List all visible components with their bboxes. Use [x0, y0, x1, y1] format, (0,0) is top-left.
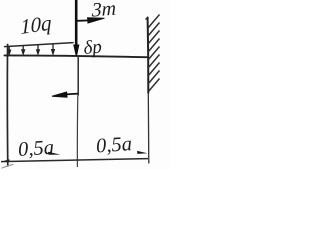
svg-text:0,5a: 0,5a [17, 137, 54, 161]
dim arrow mid [48, 152, 61, 155]
wall hatch 2 [148, 23, 160, 37]
node center vertical member [77, 57, 79, 96]
dimension line bottom [1, 159, 148, 162]
wire left vertical member [6, 45, 8, 167]
wall hatch 3 [148, 31, 160, 45]
wall top hook [146, 18, 148, 20]
wire distributed load baseline [5, 43, 74, 47]
wall hatch 7 [148, 63, 160, 77]
wall hatch 5 [148, 47, 160, 61]
load arrow 2 [22, 46, 25, 55]
wall vertical line [147, 18, 150, 94]
wire center vertical lower [76, 96, 78, 168]
mid horizontal force arrow [52, 92, 78, 97]
smudge bottom left [2, 165, 13, 169]
load arrow 1 [8, 46, 11, 54]
moment arrow 3m [77, 18, 105, 23]
wall hatch 9 [148, 79, 160, 93]
wall hatch 1 [148, 15, 160, 29]
force P vertical arrow [74, 0, 79, 56]
dim arrow right [137, 151, 148, 154]
svg-text:0,5a: 0,5a [95, 133, 132, 157]
wire top beam [5, 55, 149, 57]
wall hatch 4 [148, 39, 160, 53]
dim arrow left [1, 159, 10, 162]
load arrow 3 [37, 45, 40, 55]
svg-text:3m: 3m [91, 0, 117, 22]
wall extension line [147, 93, 150, 164]
svg-text:10q: 10q [20, 11, 52, 39]
wall hatch 8 [148, 71, 160, 85]
svg-text:δp: δp [83, 36, 103, 59]
load arrow 4 [52, 44, 55, 54]
wall hatch 6 [148, 55, 160, 69]
